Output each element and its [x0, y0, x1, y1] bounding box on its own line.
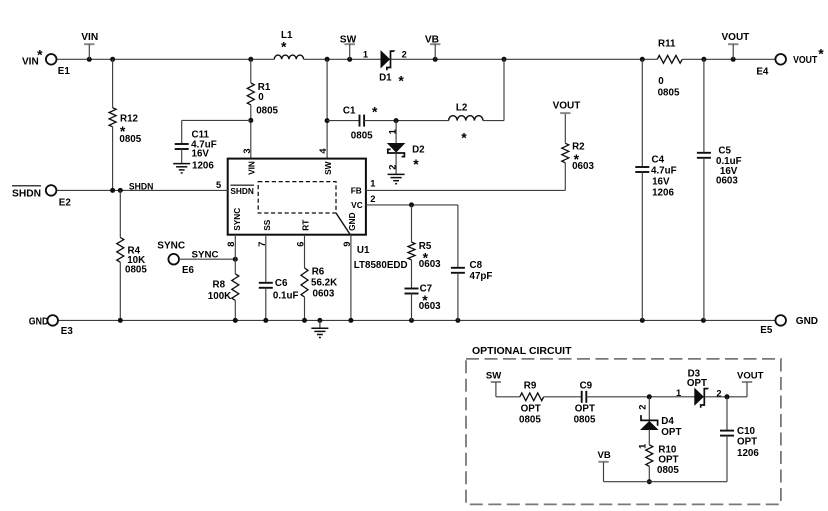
svg-text:VOUT: VOUT [793, 55, 817, 66]
svg-text:VOUT: VOUT [737, 370, 764, 381]
svg-text:2: 2 [370, 194, 375, 204]
svg-text:VOUT: VOUT [553, 101, 581, 112]
svg-text:OPTIONAL CIRCUIT: OPTIONAL CIRCUIT [472, 346, 572, 357]
svg-text:1206: 1206 [192, 160, 214, 171]
svg-text:SHDN: SHDN [129, 181, 154, 191]
svg-text:6: 6 [296, 242, 306, 247]
svg-text:C1: C1 [343, 105, 356, 116]
svg-text:SHDN: SHDN [12, 188, 41, 199]
svg-text:E6: E6 [182, 265, 195, 276]
svg-text:U1: U1 [357, 245, 370, 256]
svg-text:OPT: OPT [521, 403, 541, 414]
svg-text:E5: E5 [760, 325, 773, 336]
svg-text:8: 8 [226, 242, 236, 247]
svg-text:SHDN: SHDN [230, 186, 254, 196]
svg-text:D2: D2 [412, 145, 425, 156]
svg-text:GND: GND [347, 212, 357, 230]
svg-text:0: 0 [258, 92, 264, 103]
svg-text:*: * [372, 103, 378, 119]
svg-text:56.2K: 56.2K [311, 278, 337, 289]
svg-text:0805: 0805 [256, 106, 278, 117]
svg-text:0603: 0603 [419, 259, 441, 270]
svg-text:7: 7 [257, 242, 267, 247]
svg-text:C6: C6 [275, 278, 288, 289]
svg-text:VC: VC [351, 200, 363, 210]
svg-text:OPT: OPT [661, 427, 681, 438]
svg-text:OPT: OPT [737, 437, 757, 448]
svg-text:C8: C8 [470, 260, 483, 271]
svg-text:E3: E3 [61, 326, 74, 337]
svg-text:*: * [281, 38, 287, 54]
svg-text:SS: SS [262, 219, 272, 231]
svg-text:SYNC: SYNC [192, 250, 219, 260]
svg-text:0.1uF: 0.1uF [273, 290, 299, 301]
svg-text:VIN: VIN [81, 32, 98, 43]
svg-text:2: 2 [387, 165, 397, 170]
svg-text:*: * [37, 47, 43, 63]
svg-text:2: 2 [716, 389, 721, 399]
svg-text:VB: VB [598, 450, 611, 461]
svg-text:47pF: 47pF [470, 271, 493, 282]
svg-text:C4: C4 [652, 154, 665, 165]
svg-text:1: 1 [363, 50, 368, 60]
svg-text:GND: GND [796, 316, 818, 327]
svg-text:C5: C5 [718, 146, 731, 157]
svg-text:SYNC: SYNC [157, 241, 185, 252]
svg-text:VOUT: VOUT [722, 32, 750, 43]
svg-text:R8: R8 [213, 279, 226, 290]
svg-text:2: 2 [637, 405, 647, 410]
svg-text:VIN: VIN [22, 56, 39, 67]
svg-text:2: 2 [402, 50, 407, 60]
svg-text:*: * [413, 156, 419, 172]
svg-text:0603: 0603 [419, 301, 441, 312]
svg-text:D1: D1 [379, 73, 392, 84]
svg-text:SYNC: SYNC [232, 208, 242, 231]
svg-text:OPT: OPT [575, 403, 595, 414]
svg-text:D4: D4 [661, 416, 674, 427]
svg-text:R11: R11 [658, 38, 676, 49]
svg-text:OPT: OPT [658, 454, 678, 465]
svg-text:*: * [461, 130, 467, 146]
svg-text:0603: 0603 [313, 289, 335, 300]
svg-text:LT8580EDD: LT8580EDD [354, 260, 408, 271]
svg-text:1: 1 [637, 444, 647, 449]
svg-text:0805: 0805 [125, 264, 147, 275]
svg-text:E4: E4 [756, 66, 769, 77]
svg-text:0805: 0805 [351, 130, 373, 141]
svg-text:9: 9 [342, 242, 352, 247]
svg-text:0805: 0805 [574, 415, 596, 426]
svg-text:3: 3 [242, 148, 252, 153]
svg-text:1: 1 [387, 129, 397, 134]
svg-text:R9: R9 [524, 381, 537, 392]
svg-text:16V: 16V [652, 176, 670, 187]
svg-text:C10: C10 [737, 426, 756, 437]
svg-text:OPT: OPT [687, 378, 707, 389]
svg-text:SW: SW [323, 161, 333, 175]
svg-text:E2: E2 [59, 197, 72, 208]
svg-text:1206: 1206 [652, 188, 674, 199]
svg-text:VIN: VIN [246, 161, 256, 175]
svg-text:4: 4 [318, 148, 328, 154]
svg-text:GND: GND [29, 316, 49, 327]
svg-text:0805: 0805 [119, 134, 141, 145]
svg-text:FB: FB [351, 186, 362, 196]
svg-text:0603: 0603 [572, 161, 594, 172]
svg-text:4.7uF: 4.7uF [651, 166, 677, 177]
svg-text:1206: 1206 [737, 448, 759, 459]
svg-text:SW: SW [486, 370, 501, 381]
svg-text:0805: 0805 [519, 415, 541, 426]
svg-text:E1: E1 [58, 66, 71, 77]
svg-text:*: * [818, 46, 824, 62]
svg-text:0805: 0805 [658, 87, 680, 98]
svg-text:1: 1 [370, 179, 375, 189]
svg-text:0805: 0805 [657, 465, 679, 476]
svg-text:L2: L2 [456, 102, 468, 113]
svg-text:R6: R6 [312, 267, 325, 278]
svg-text:SW: SW [340, 34, 357, 45]
svg-text:0: 0 [658, 76, 664, 87]
svg-text:C9: C9 [580, 381, 593, 392]
svg-text:RT: RT [301, 220, 311, 231]
svg-text:1: 1 [676, 388, 681, 398]
svg-text:VB: VB [425, 34, 439, 45]
svg-text:0603: 0603 [716, 176, 738, 187]
svg-text:*: * [398, 72, 404, 88]
svg-text:5: 5 [216, 180, 221, 190]
svg-text:16V: 16V [192, 148, 210, 159]
svg-text:100K: 100K [208, 291, 231, 302]
